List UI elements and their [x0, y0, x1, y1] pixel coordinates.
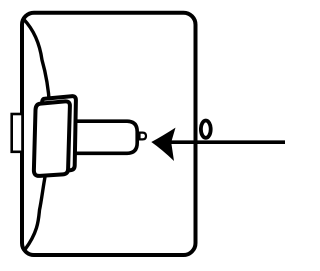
plug body front face [34, 101, 70, 176]
plug barrel (cylinder with rounded right end) [72, 121, 137, 153]
curved front surface arc inside housing [24, 19, 50, 250]
housing outer body (rounded rectangle) [22, 13, 196, 255]
tip contact nub at barrel end [140, 133, 147, 140]
side tab on left housing edge [12, 114, 23, 152]
reference numeral 0 (oval) on leader line [201, 121, 211, 138]
arrowhead pointing left at plug tip [151, 128, 175, 161]
leader line from right [171, 140, 286, 144]
plug body back face (3D offset) [41, 96, 76, 173]
